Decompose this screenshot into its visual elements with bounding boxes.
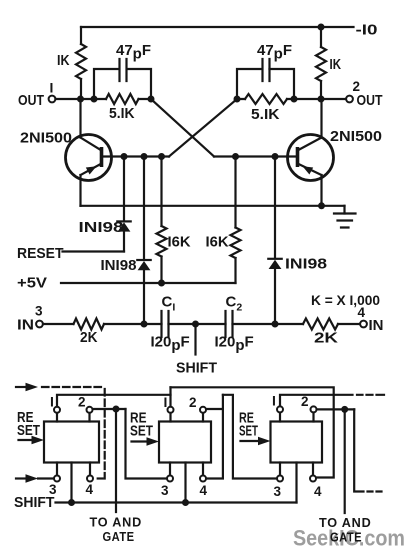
wire chain to U3 pin4	[171, 387, 334, 477]
node emitter Q2	[318, 202, 325, 209]
wire cross-couple base Q2 to node left	[151, 99, 214, 157]
svg-text:+5V: +5V	[17, 275, 47, 292]
svg-text:I: I	[272, 393, 276, 409]
svg-text:GATE: GATE	[330, 531, 362, 545]
resistor R4 5.1K right	[245, 94, 287, 104]
diode D1 1N198	[123, 157, 125, 221]
svg-text:RESET: RESET	[17, 245, 64, 262]
svg-text:INI98: INI98	[79, 219, 124, 236]
wire U1 pin2 out	[93, 408, 126, 410]
node base Q2 diode D3	[272, 153, 279, 160]
svg-text:INI98: INI98	[101, 257, 137, 274]
svg-text:IN: IN	[369, 317, 384, 334]
wire dashed to U1 pin4	[42, 386, 105, 388]
svg-text:IN: IN	[17, 317, 34, 334]
svg-text:I6K: I6K	[206, 234, 229, 251]
node D2 on IN line	[141, 321, 148, 328]
svg-text:3: 3	[274, 484, 282, 499]
arrow reset U3	[241, 440, 259, 442]
wire right OUT rail	[294, 98, 346, 100]
wire base Q2	[214, 155, 298, 157]
svg-text:INI98: INI98	[285, 256, 327, 273]
resistor R1 1K left	[80, 27, 82, 44]
wire U1 clock stub	[70, 463, 72, 503]
svg-text:GATE: GATE	[103, 530, 135, 544]
wire U2 pin2/pin4 riser	[206, 395, 223, 479]
node base Q2 R6	[232, 153, 239, 160]
svg-text:SHIFT: SHIFT	[176, 360, 217, 377]
node U3 pin2 junction	[341, 406, 348, 413]
svg-text:5.IK: 5.IK	[251, 106, 280, 123]
capacitor C2 120pF	[226, 311, 233, 337]
resistor R7 2K	[43, 323, 74, 325]
ground	[343, 206, 345, 214]
svg-text:IK: IK	[330, 56, 342, 73]
wire emitter rail	[81, 205, 345, 207]
node base Q1 R5	[158, 153, 165, 160]
svg-text:I: I	[164, 394, 168, 410]
svg-text:SHIFT: SHIFT	[14, 494, 55, 511]
svg-text:I: I	[50, 394, 54, 410]
resistor R8 2K	[303, 319, 338, 330]
svg-text:2: 2	[78, 395, 86, 410]
wire OUT1 to node	[56, 98, 95, 100]
svg-text:4: 4	[200, 483, 208, 498]
wire U2 pin1 riser	[169, 387, 171, 406]
svg-text:2: 2	[301, 394, 309, 409]
svg-text:OUT: OUT	[357, 92, 383, 109]
wire base Q1	[102, 155, 170, 157]
node collector Q1 / R1	[77, 96, 84, 103]
node R5 bottom	[158, 280, 165, 287]
resistor R6 16K	[234, 157, 236, 228]
svg-text:2NI500: 2NI500	[20, 130, 72, 147]
arrow reset U1	[19, 439, 33, 441]
svg-text:2K: 2K	[314, 330, 338, 347]
svg-text:2K: 2K	[80, 329, 98, 346]
svg-text:TO AND: TO AND	[90, 514, 143, 529]
svg-text:I: I	[50, 80, 54, 96]
svg-text:SET: SET	[130, 423, 153, 440]
svg-text:TO AND: TO AND	[319, 515, 372, 530]
node collector Q2 / R2	[318, 96, 325, 103]
svg-text:2NI500: 2NI500	[330, 128, 382, 145]
diode D3 1N198	[274, 157, 276, 258]
node C47 left bracket	[91, 96, 98, 103]
wire SHIFT stub	[194, 324, 196, 355]
wire U2 pin2 out	[206, 408, 223, 410]
resistor R5 16K	[160, 157, 162, 227]
svg-text:K = X I,000: K = X I,000	[311, 293, 380, 308]
capacitor 47pF right	[237, 69, 294, 99]
svg-text:-I0: -I0	[356, 23, 378, 39]
flip-flop U3	[271, 422, 323, 463]
wire chain out right	[354, 409, 363, 491]
svg-text:4: 4	[358, 305, 366, 320]
svg-text:5.IK: 5.IK	[109, 105, 135, 122]
flip-flop U1	[44, 422, 99, 463]
wire collector Q1	[79, 99, 81, 138]
node U1 clock	[68, 499, 75, 506]
arrow input bottom left	[16, 477, 26, 479]
svg-text:SET: SET	[239, 423, 258, 440]
node cross-couple right	[234, 96, 241, 103]
svg-text:2: 2	[189, 395, 197, 410]
flip-flop U2	[159, 422, 211, 463]
resistor R2 1K right	[320, 27, 322, 47]
arrow input top left	[16, 386, 26, 388]
wire chain jog to U3 pin3	[223, 395, 277, 479]
wire U1 pin1 chain	[57, 395, 171, 407]
wire dashes chain out right	[368, 490, 382, 492]
wire U1pin2 to U2 pin3	[126, 409, 167, 479]
svg-text:IK: IK	[57, 52, 70, 69]
node cross-couple left	[148, 96, 155, 103]
wire U3 pin2 out	[317, 408, 354, 410]
wire U2 clock stub	[184, 463, 186, 503]
wire SHIFT rail	[56, 501, 297, 503]
node U2 clock	[182, 499, 189, 506]
wire to AND gate 2	[344, 409, 346, 513]
node U1 pin2 junction	[113, 406, 120, 413]
wire cross-couple base Q1 to node right	[169, 99, 237, 157]
svg-text:SET: SET	[17, 422, 40, 439]
node base Q1 diode D2	[141, 153, 148, 160]
node base Q1 diode D1	[121, 153, 128, 160]
wire U3 pin1 riser chain out	[280, 395, 353, 406]
svg-text:4: 4	[314, 484, 322, 499]
wire collector Q2	[320, 99, 322, 138]
svg-text:3: 3	[35, 304, 43, 319]
wire +5V rail	[61, 282, 236, 284]
wire U3 clock stub	[295, 463, 297, 503]
wire top -10 supply rail	[81, 26, 354, 28]
wire to RESET	[63, 250, 125, 252]
diode D2 1N198	[143, 157, 145, 259]
wire to AND gate 1	[115, 409, 117, 512]
svg-text:OUT: OUT	[18, 92, 44, 109]
node SHIFT tap	[192, 321, 199, 328]
wire dashes chain out top	[357, 394, 384, 396]
node C47 right bracket	[291, 96, 298, 103]
svg-text:3: 3	[161, 483, 169, 498]
capacitor 47pF left	[94, 69, 151, 99]
node junction top rail to R2	[318, 24, 325, 31]
svg-text:I6K: I6K	[168, 234, 191, 251]
arrow reset U2	[132, 440, 148, 442]
resistor R3 5.1K left	[106, 94, 139, 104]
node D3 on IN line	[272, 321, 279, 328]
capacitor C1 120pF	[144, 323, 162, 325]
svg-text:4: 4	[86, 482, 94, 497]
